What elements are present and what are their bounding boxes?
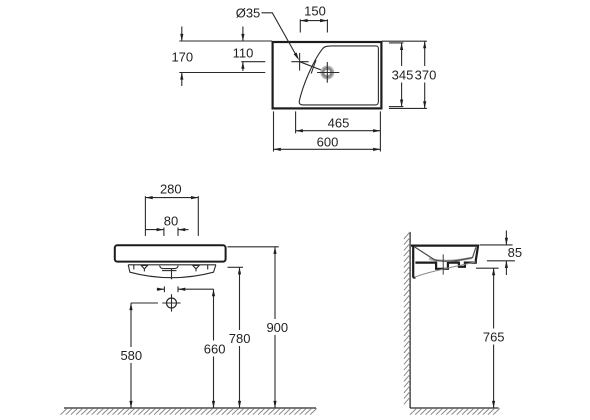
svg-text:345: 345 (392, 68, 414, 83)
bowl bottom shading (429, 258, 472, 261)
labels 345 370 (390, 66, 439, 83)
underside bowl outline (front view) (128, 265, 216, 278)
dimension 170 (top edge to drain) (171, 27, 193, 87)
dimension 80 (faucet area width) (145, 214, 188, 236)
svg-text:580: 580 (120, 348, 142, 363)
extension line 900 (228, 246, 279, 248)
wall line (409, 232, 411, 408)
leader line from Ø35 to faucet hole (262, 13, 300, 61)
dimension 765 (underside front height) (481, 268, 507, 408)
dimension 900 (rim height) (265, 247, 291, 408)
underside curve (side view) (414, 262, 475, 277)
ground hatching right (410, 408, 500, 414)
extension lines right (345/370) (382, 41, 427, 108)
svg-text:600: 600 (317, 134, 339, 149)
extension line 780 (228, 266, 244, 268)
dimension 465 (bowl width) (296, 111, 381, 151)
trap width ticks and arrows (157, 286, 214, 292)
extension line drain center (179, 72, 265, 74)
drain centerline (side view) (442, 254, 444, 274)
drain centerline (front view) (171, 269, 173, 279)
underside side ticks (134, 265, 208, 270)
svg-text:80: 80 (164, 214, 178, 229)
axis line faucet to drain (300, 62, 328, 73)
right fixing hole mark (193, 265, 199, 271)
svg-text:900: 900 (266, 320, 288, 335)
svg-text:370: 370 (415, 68, 437, 83)
extension line faucet center (241, 61, 265, 63)
side profile top and front edge (411, 246, 478, 269)
svg-text:Ø35: Ø35 (236, 5, 261, 20)
svg-text:110: 110 (233, 46, 254, 61)
overflow slot (160, 266, 179, 271)
wall hatching (404, 232, 410, 404)
faucet hole crosshair (291, 53, 308, 71)
svg-text:660: 660 (204, 342, 226, 357)
svg-text:465: 465 (328, 116, 350, 131)
rear mounting flange (413, 246, 415, 278)
basin outer rim (top view) (273, 42, 382, 108)
extension line 765 (476, 267, 499, 269)
dimension 580 (trap height) (119, 303, 145, 408)
svg-text:765: 765 (483, 330, 505, 345)
diagonal tick on axis (311, 60, 316, 74)
ground hatching left (61, 408, 317, 414)
basin slab (front view) (115, 245, 226, 261)
underside top line (128, 264, 216, 266)
dimension 345 (400, 43, 403, 107)
ground line right (410, 407, 498, 409)
basin inner bowl outline (top view) (299, 46, 378, 105)
ground line left (64, 407, 316, 409)
dimension 780 (underside height) (227, 267, 253, 408)
label Ø35 (236, 5, 261, 20)
dimension 370 (423, 41, 426, 108)
dimension 600 (overall width) (274, 111, 381, 151)
dimension 85 (rim thickness) (480, 231, 522, 276)
svg-text:780: 780 (229, 331, 251, 346)
dimension 150 (faucet to drain spacing) (300, 3, 327, 32)
drain hole (top view) (317, 62, 339, 83)
bowl interior profile (414, 247, 476, 261)
extension line 580 (131, 302, 158, 304)
svg-text:280: 280 (160, 182, 182, 197)
extension line top edge (left) (179, 40, 272, 42)
trap hole crosshair (front view) (162, 294, 180, 311)
dimension 280 (fixing holes spacing) (145, 182, 198, 236)
dimension 660 (drain outlet height) (202, 289, 228, 408)
dimension 110 (top edge to faucet) (233, 27, 254, 72)
svg-text:150: 150 (304, 3, 326, 18)
svg-text:85: 85 (508, 245, 522, 260)
svg-text:170: 170 (171, 50, 193, 65)
left fixing hole mark (141, 265, 147, 271)
